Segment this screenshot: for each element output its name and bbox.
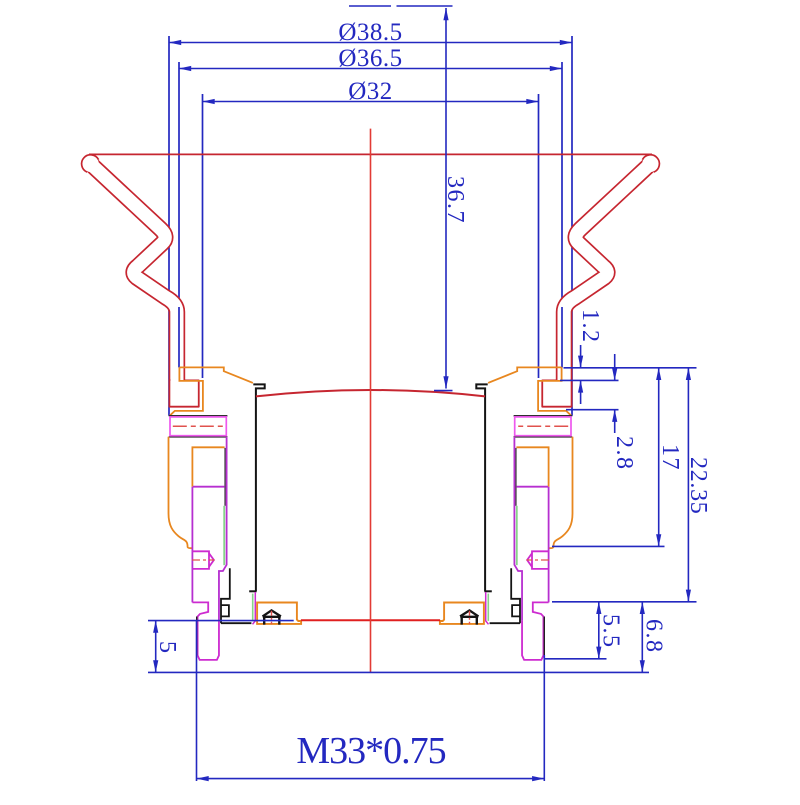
22.35 bbox=[687, 368, 689, 480]
svg-text:6.8: 6.8 bbox=[641, 619, 667, 654]
orange top flange bbox=[179, 367, 253, 383]
5.5 bbox=[598, 602, 600, 630]
black bayonet bbox=[221, 568, 230, 623]
eyecup ball tip bbox=[82, 156, 98, 172]
set screw bbox=[192, 551, 209, 569]
orange outer wall with S-curve bbox=[169, 437, 192, 548]
bottom face line bbox=[301, 619, 440, 621]
2.8 bbox=[614, 354, 616, 380]
ext lines under part bbox=[168, 36, 170, 416]
svg-text:Ø36.5: Ø36.5 bbox=[338, 45, 402, 72]
svg-text:17: 17 bbox=[657, 444, 683, 471]
rubber eyecup band (double stroke) bbox=[92, 165, 177, 381]
gray edge bbox=[224, 448, 226, 506]
svg-text:Ø32: Ø32 bbox=[348, 78, 393, 105]
black step + barrel wall bbox=[253, 384, 264, 591]
red centerline bbox=[370, 129, 372, 673]
svg-text:M33*0.75: M33*0.75 bbox=[296, 730, 445, 772]
36.7 vertical bbox=[445, 8, 447, 198]
green slider bbox=[223, 506, 225, 565]
right side ext horizontals bbox=[564, 367, 697, 369]
knurl box bbox=[169, 415, 228, 417]
svg-text:36.7: 36.7 bbox=[442, 176, 468, 224]
svg-text:2.8: 2.8 bbox=[611, 436, 637, 471]
6.8 bbox=[641, 602, 643, 637]
svg-text:Ø38.5: Ø38.5 bbox=[338, 19, 402, 46]
magenta inner box + wall bbox=[193, 486, 225, 488]
svg-text:22.35: 22.35 bbox=[685, 457, 711, 515]
svg-text:1.2: 1.2 bbox=[577, 309, 603, 344]
5 bbox=[155, 621, 157, 646]
svg-text:5: 5 bbox=[154, 641, 180, 655]
rubber foot bbox=[169, 379, 198, 407]
eyecup top rim bbox=[89, 153, 372, 155]
house (screw cap) bbox=[263, 616, 265, 625]
green + magenta small verticals bbox=[252, 594, 254, 621]
orange inner box bbox=[192, 447, 224, 486]
redraw blue ext over white band interior bbox=[178, 307, 180, 367]
mount foot bbox=[192, 602, 219, 660]
magenta outer wall bbox=[219, 437, 227, 621]
top dash-dot bbox=[349, 5, 391, 7]
M33 bbox=[196, 621, 198, 781]
svg-text:5.5: 5.5 bbox=[598, 614, 624, 649]
17 bbox=[658, 368, 660, 455]
orange clamp bbox=[257, 603, 301, 624]
lens top surface bbox=[256, 390, 485, 396]
1.2 bbox=[580, 345, 582, 368]
diameter dim lines bbox=[169, 42, 370, 44]
dimension texts bbox=[338, 19, 402, 105]
